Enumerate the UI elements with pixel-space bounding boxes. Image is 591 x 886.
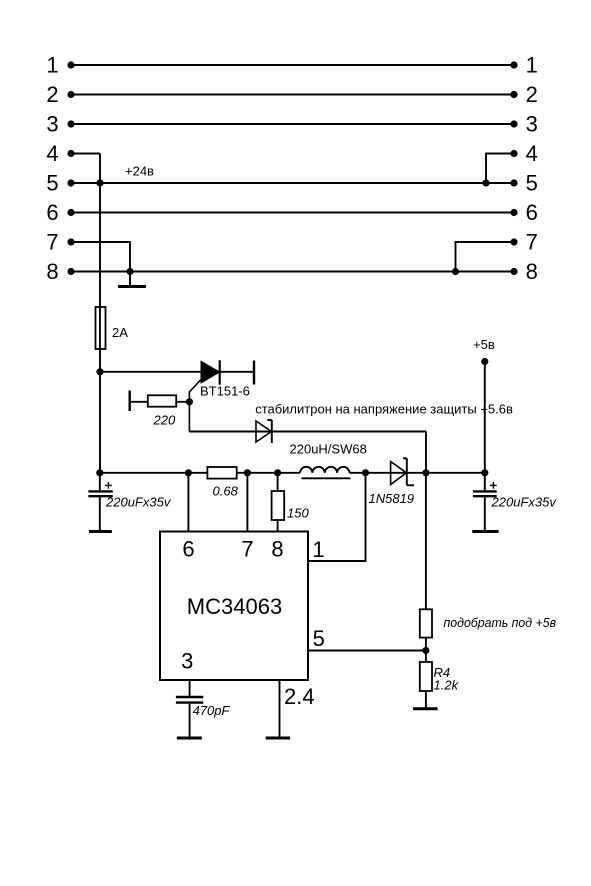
wire line 4 left stub xyxy=(71,153,100,155)
ground under right capacitor xyxy=(472,530,498,533)
capacitor C1 220uFx35v left xyxy=(88,482,171,509)
svg-text:8: 8 xyxy=(271,537,283,562)
IC U1 MC34063 body xyxy=(160,532,308,681)
ground under 470pF xyxy=(177,737,202,740)
resistor podbor (select for +5v) xyxy=(420,609,556,637)
resistor R4 1.2k xyxy=(420,662,460,693)
svg-text:1.2k: 1.2k xyxy=(434,678,460,693)
svg-text:8: 8 xyxy=(46,259,58,284)
svg-text:3: 3 xyxy=(46,111,58,136)
svg-text:2: 2 xyxy=(46,82,58,107)
svg-text:150: 150 xyxy=(287,506,309,521)
ground under R4 xyxy=(413,707,438,710)
svg-text:3: 3 xyxy=(526,111,538,136)
node +5v rail junction xyxy=(481,469,488,476)
svg-text:+24в: +24в xyxy=(125,164,154,179)
wire pin 7 drop xyxy=(246,473,248,532)
svg-text:2A: 2A xyxy=(112,325,128,340)
wire line 4 right stub xyxy=(486,154,514,184)
thyristor BT151-6 xyxy=(200,360,254,398)
svg-text:подобрать под +5в: подобрать под +5в xyxy=(444,615,557,630)
wire line 1 xyxy=(71,64,514,66)
ground under line 8 left xyxy=(118,285,146,288)
svg-text:MC34063: MC34063 xyxy=(187,594,282,619)
svg-text:1: 1 xyxy=(46,52,58,77)
wire main rail right part xyxy=(350,472,485,474)
svg-text:стабилитрон на напряжение защи: стабилитрон на напряжение защиты +5.6в xyxy=(255,402,513,417)
node pin8 rail junction xyxy=(274,469,281,476)
node pin7 rail junction xyxy=(244,469,251,476)
wire main rail left part xyxy=(100,472,300,474)
fuse F1 2A xyxy=(96,307,129,349)
wire pin 5 to divider xyxy=(308,650,426,652)
svg-text:4: 4 xyxy=(46,141,58,166)
wire thyristor gate xyxy=(189,379,202,432)
wire line 8 xyxy=(71,271,514,273)
wire line 6 xyxy=(71,212,514,214)
ground under left capacitor xyxy=(89,530,112,533)
svg-text:8: 8 xyxy=(526,259,538,284)
svg-text:2: 2 xyxy=(526,82,538,107)
wire gate to R 220 xyxy=(148,401,190,403)
svg-text:+5в: +5в xyxy=(473,337,495,352)
resistor R 220 xyxy=(130,391,177,428)
svg-text:7: 7 xyxy=(241,537,253,562)
wire divider vertical xyxy=(425,473,427,708)
svg-text:220: 220 xyxy=(153,413,176,428)
svg-text:6: 6 xyxy=(46,200,58,225)
node +5v terminal xyxy=(481,358,488,365)
node pin1 rail junction xyxy=(362,469,369,476)
node rail left xyxy=(96,469,103,476)
svg-text:3: 3 xyxy=(181,649,193,674)
node pin6 rail junction xyxy=(185,469,192,476)
connector pins right column xyxy=(526,52,538,283)
wire pin 2.4 to ground xyxy=(279,680,281,737)
wire pin 6 drop xyxy=(187,473,189,532)
zener diode VD1 xyxy=(255,402,513,444)
svg-text:BT151-6: BT151-6 xyxy=(200,384,250,399)
svg-text:1N5819: 1N5819 xyxy=(369,491,415,506)
capacitor C2 220uFx35v right xyxy=(473,482,557,509)
wire zener branch xyxy=(189,431,426,433)
node divider mid junction xyxy=(422,647,429,654)
wire +5v output stub xyxy=(484,362,486,473)
wire pin 3 cap to ground xyxy=(189,704,191,737)
wire line 5 (+24v rail) xyxy=(71,182,514,184)
wire line 2 xyxy=(71,94,514,96)
wire line 7 right stub xyxy=(456,242,515,272)
inductor L1 220uH/SW68 xyxy=(290,442,367,479)
svg-text:5: 5 xyxy=(46,170,58,195)
svg-text:220uH/SW68: 220uH/SW68 xyxy=(290,442,367,457)
wire zener to +5v rail xyxy=(425,432,427,473)
svg-text:5: 5 xyxy=(526,170,538,195)
svg-text:6: 6 xyxy=(526,200,538,225)
node gate junction xyxy=(186,398,193,405)
wire pin 8 drop through R 150 xyxy=(277,473,279,532)
svg-text:7: 7 xyxy=(46,229,58,254)
svg-text:0.68: 0.68 xyxy=(213,484,239,499)
wire left capacitor bottom xyxy=(99,497,101,530)
wire R 220 to terminal xyxy=(130,401,148,403)
svg-text:6: 6 xyxy=(182,537,194,562)
wire input drop from line 4 to rail xyxy=(99,154,101,473)
wire line 3 xyxy=(71,123,514,125)
wire pin 1 to rail xyxy=(308,473,366,561)
svg-text:2.4: 2.4 xyxy=(284,684,315,709)
node line5 right junction xyxy=(482,179,489,186)
wire right capacitor top xyxy=(484,473,486,490)
svg-text:4: 4 xyxy=(526,141,538,166)
capacitor 470pF on pin 3 xyxy=(176,697,231,718)
svg-text:220uFx35v: 220uFx35v xyxy=(105,495,172,510)
wire thyristor cathode to terminal xyxy=(220,371,255,373)
node thyristor tap xyxy=(96,368,103,375)
wire thyristor anode branch xyxy=(100,371,201,373)
connector terminal dots left xyxy=(67,61,74,275)
svg-text:5: 5 xyxy=(313,626,325,651)
svg-text:470pF: 470pF xyxy=(193,703,231,718)
wire line 7 left stub xyxy=(71,242,130,285)
schottky diode 1N5819 xyxy=(369,458,415,506)
resistor 150 xyxy=(272,491,310,521)
svg-text:220uFx35v: 220uFx35v xyxy=(491,495,558,510)
connector pins left column xyxy=(46,52,58,283)
wire right capacitor bottom xyxy=(484,497,486,530)
wire pin 3 drop xyxy=(189,680,191,696)
svg-text:1: 1 xyxy=(312,537,324,562)
node +24v junction line5 left xyxy=(96,179,103,186)
resistor 0.68 xyxy=(207,467,238,499)
node divider rail junction xyxy=(422,469,429,476)
svg-text:7: 7 xyxy=(526,229,538,254)
wire left capacitor top xyxy=(99,473,101,490)
connector terminal dots right xyxy=(510,61,517,275)
ground under pin 2.4 xyxy=(266,737,290,740)
node line8 right junction xyxy=(452,268,459,275)
svg-text:1: 1 xyxy=(526,52,538,77)
node line8 ground junction xyxy=(126,268,133,275)
